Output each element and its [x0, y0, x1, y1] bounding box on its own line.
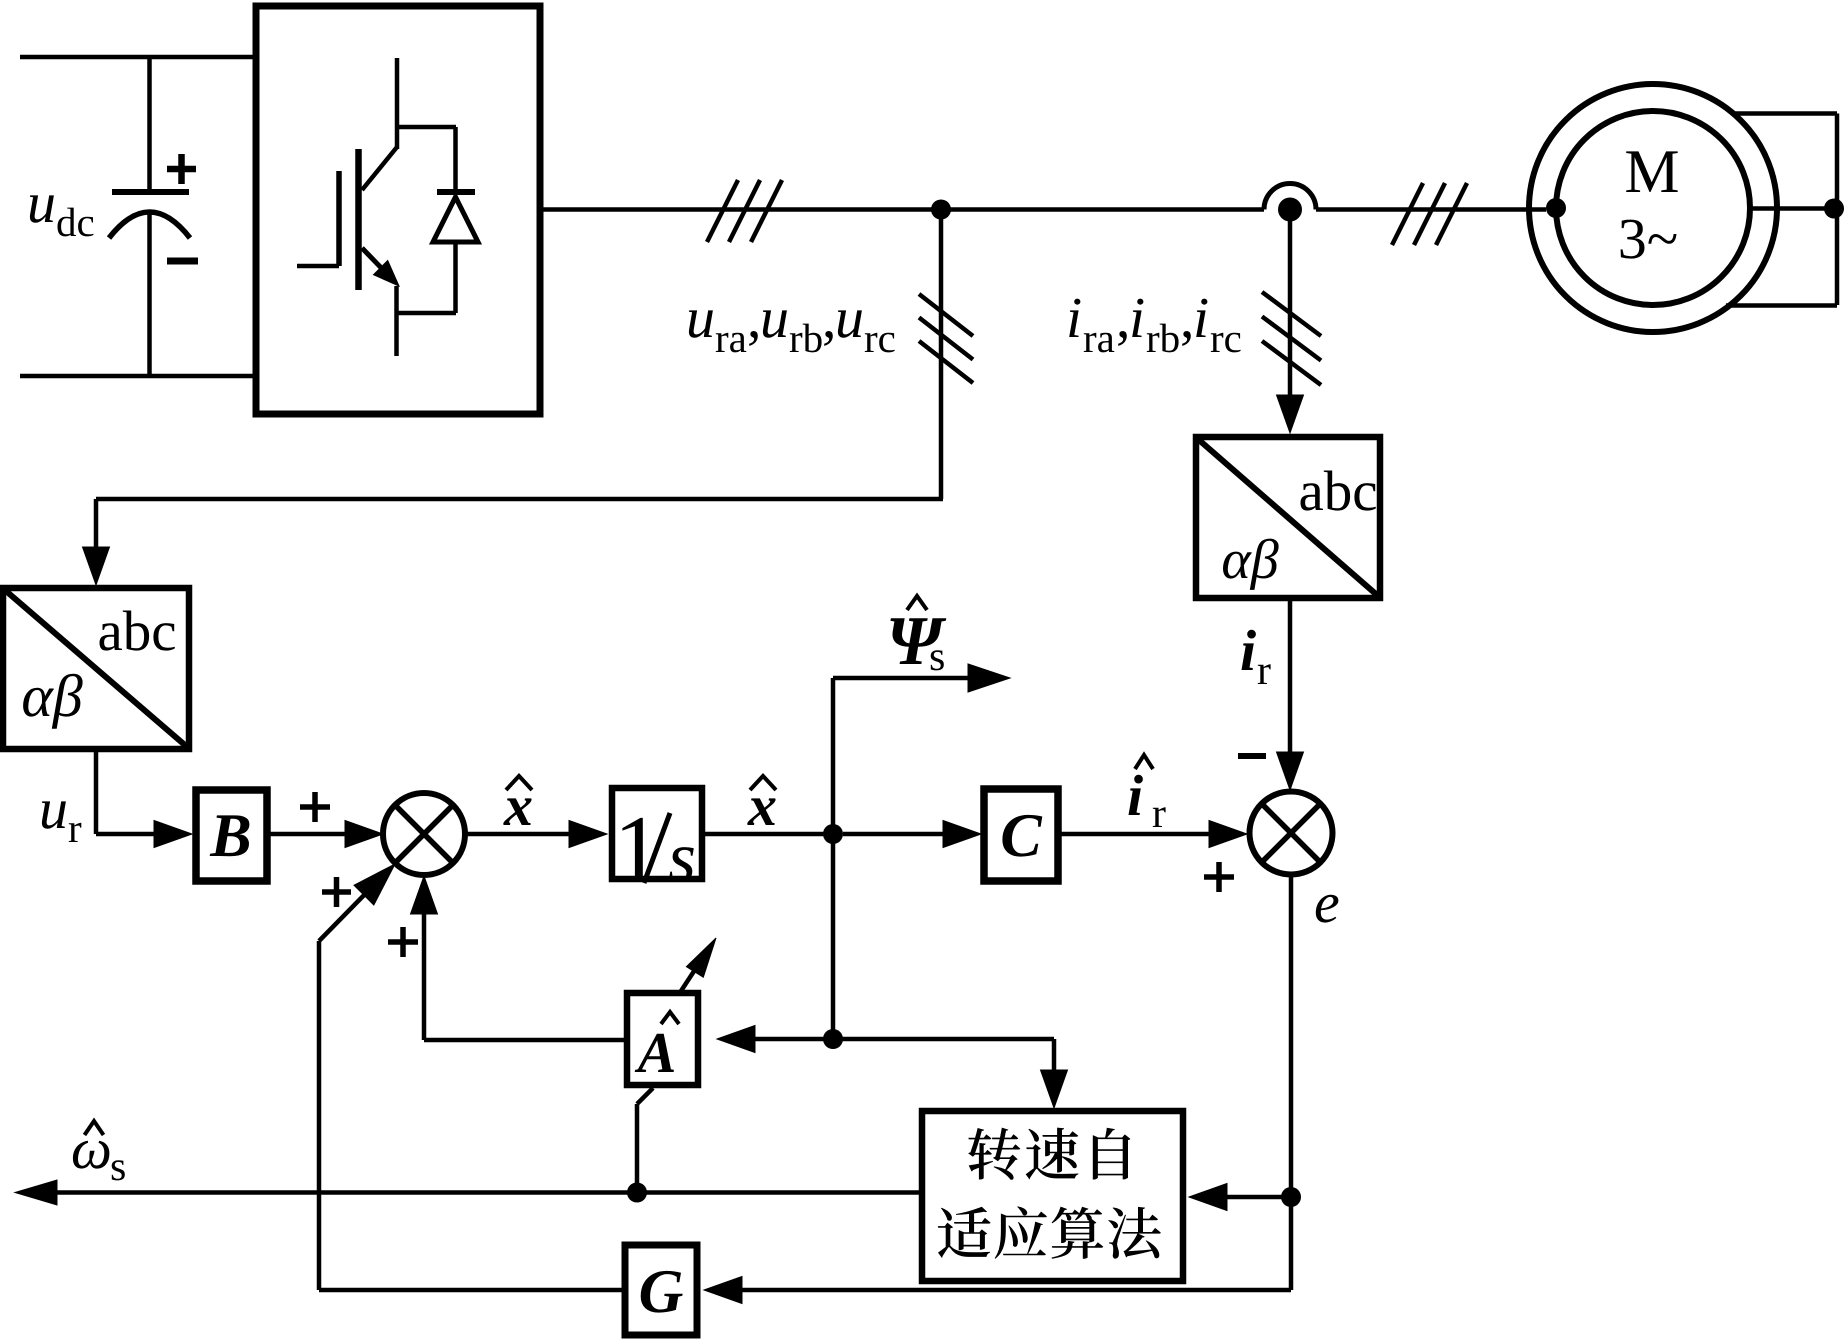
node: motor left terminal: [1546, 198, 1566, 218]
label: capacitor + polarity: [167, 154, 196, 184]
wire: u_r output of transform: [96, 749, 192, 848]
label Psi-hat_s: [890, 596, 946, 670]
wire: omega-hat_s output of adaptation block: [15, 1180, 920, 1205]
wire: A-hat feedback into S1 bottom: [411, 876, 628, 1040]
wire: current tap down: [1277, 210, 1304, 434]
motor M 3~: [1529, 84, 1777, 332]
block G (observer gain): [625, 1245, 697, 1335]
wire: x-hat into adaptation block top: [833, 1039, 1068, 1108]
label: three-phase slash marks on current tap: [1262, 292, 1321, 385]
node: voltage tap junction: [931, 200, 951, 220]
label x-hat (after integrator): [747, 776, 776, 825]
node: motor right terminal: [1824, 199, 1844, 219]
label u_dc: [30, 195, 94, 236]
wire: omega-hat into A-hat bottom connector: [637, 1088, 653, 1193]
label: capacitor - polarity: [167, 258, 198, 265]
label: + sign for C input: [1204, 862, 1234, 892]
wire: C output i-hat_r into summing junction S2: [1058, 821, 1247, 848]
summing junction S2: [1250, 792, 1333, 875]
block A-hat (adaptive system matrix): [627, 993, 698, 1085]
block: abc/alphabeta current transform: [1196, 437, 1380, 598]
block C: [984, 789, 1058, 881]
wire: x-hat into A-hat block (arrow with gap): [717, 1026, 833, 1053]
transistor Q1 (IGBT inside inverter): [297, 58, 456, 356]
wire: voltage tap down: [939, 210, 944, 500]
wire: e to G block: [704, 1277, 1291, 1304]
wire: e into adaptation block right edge: [1189, 1184, 1291, 1211]
label: + sign for B input: [300, 792, 330, 822]
wire: to motor: [1316, 207, 1546, 212]
label: + sign for G input: [322, 877, 351, 907]
wire: i_r from transform into S2: [1277, 601, 1304, 790]
wire: DC bus top rail: [20, 55, 256, 60]
node: x-hat feedback junction: [823, 1029, 843, 1049]
wire: inverter output to motor (three-phase): [540, 207, 1264, 212]
diode D1 (antiparallel, inside inverter): [433, 127, 478, 313]
inverter block U1: [256, 6, 540, 414]
wire: flux output Psi-hat_s: [833, 664, 1010, 834]
node: omega-hat junction: [627, 1183, 647, 1203]
capacitor Cdc (DC-link, polarized): [109, 57, 190, 376]
wire: B output into summing junction: [267, 821, 383, 848]
wire: x-hat down-branch to A-hat and adaptation block: [831, 834, 836, 1039]
wire: corner from voltage tap to abc/alphabeta block: [83, 499, 944, 585]
wire: G feedback diagonal into S1: [319, 864, 395, 941]
label i_r: [1242, 630, 1271, 684]
node: current tap junction with sensor hop: [1264, 184, 1316, 222]
label i-hat_r: [1129, 755, 1166, 827]
wire: error e down from S2: [1289, 875, 1294, 1291]
label: three-phase slash marks before motor: [1392, 183, 1467, 245]
label: three-phase slash marks on output wire: [707, 180, 782, 242]
node: e junction to adaptation law: [1281, 1187, 1301, 1207]
label: three-phase slash marks on voltage tap: [919, 294, 973, 383]
block B: [196, 790, 267, 881]
label u_r: [42, 801, 81, 842]
block: speed adaptation algorithm (zhuan su zi shi ying suan fa): [922, 1111, 1183, 1281]
label: - sign for i_r input: [1238, 753, 1266, 759]
label: + sign for A-hat input: [388, 927, 418, 957]
wire: G output feedback to S1: [319, 941, 625, 1290]
label e: [1316, 895, 1339, 923]
wire: motor right-side loop: [1726, 114, 1837, 306]
wire: into C block: [843, 821, 981, 848]
label x-hat (before integrator): [503, 776, 532, 825]
wire: integrator output: [702, 832, 833, 837]
wire: DC bus bottom rail: [20, 374, 256, 379]
label omega-hat_s: [73, 1121, 125, 1180]
label: adaptation arrow through A-hat: [681, 938, 716, 991]
label i_ra,i_rb,i_rc: [1069, 299, 1240, 353]
wire: S1 to integrator: [465, 821, 607, 848]
block: abc/alphabeta voltage transform: [3, 588, 189, 749]
summing junction S1: [383, 793, 465, 875]
label u_ra,u_rb,u_rc: [689, 310, 895, 352]
node: x-hat branch junction: [823, 824, 843, 844]
block 1/s integrator: [612, 788, 702, 883]
